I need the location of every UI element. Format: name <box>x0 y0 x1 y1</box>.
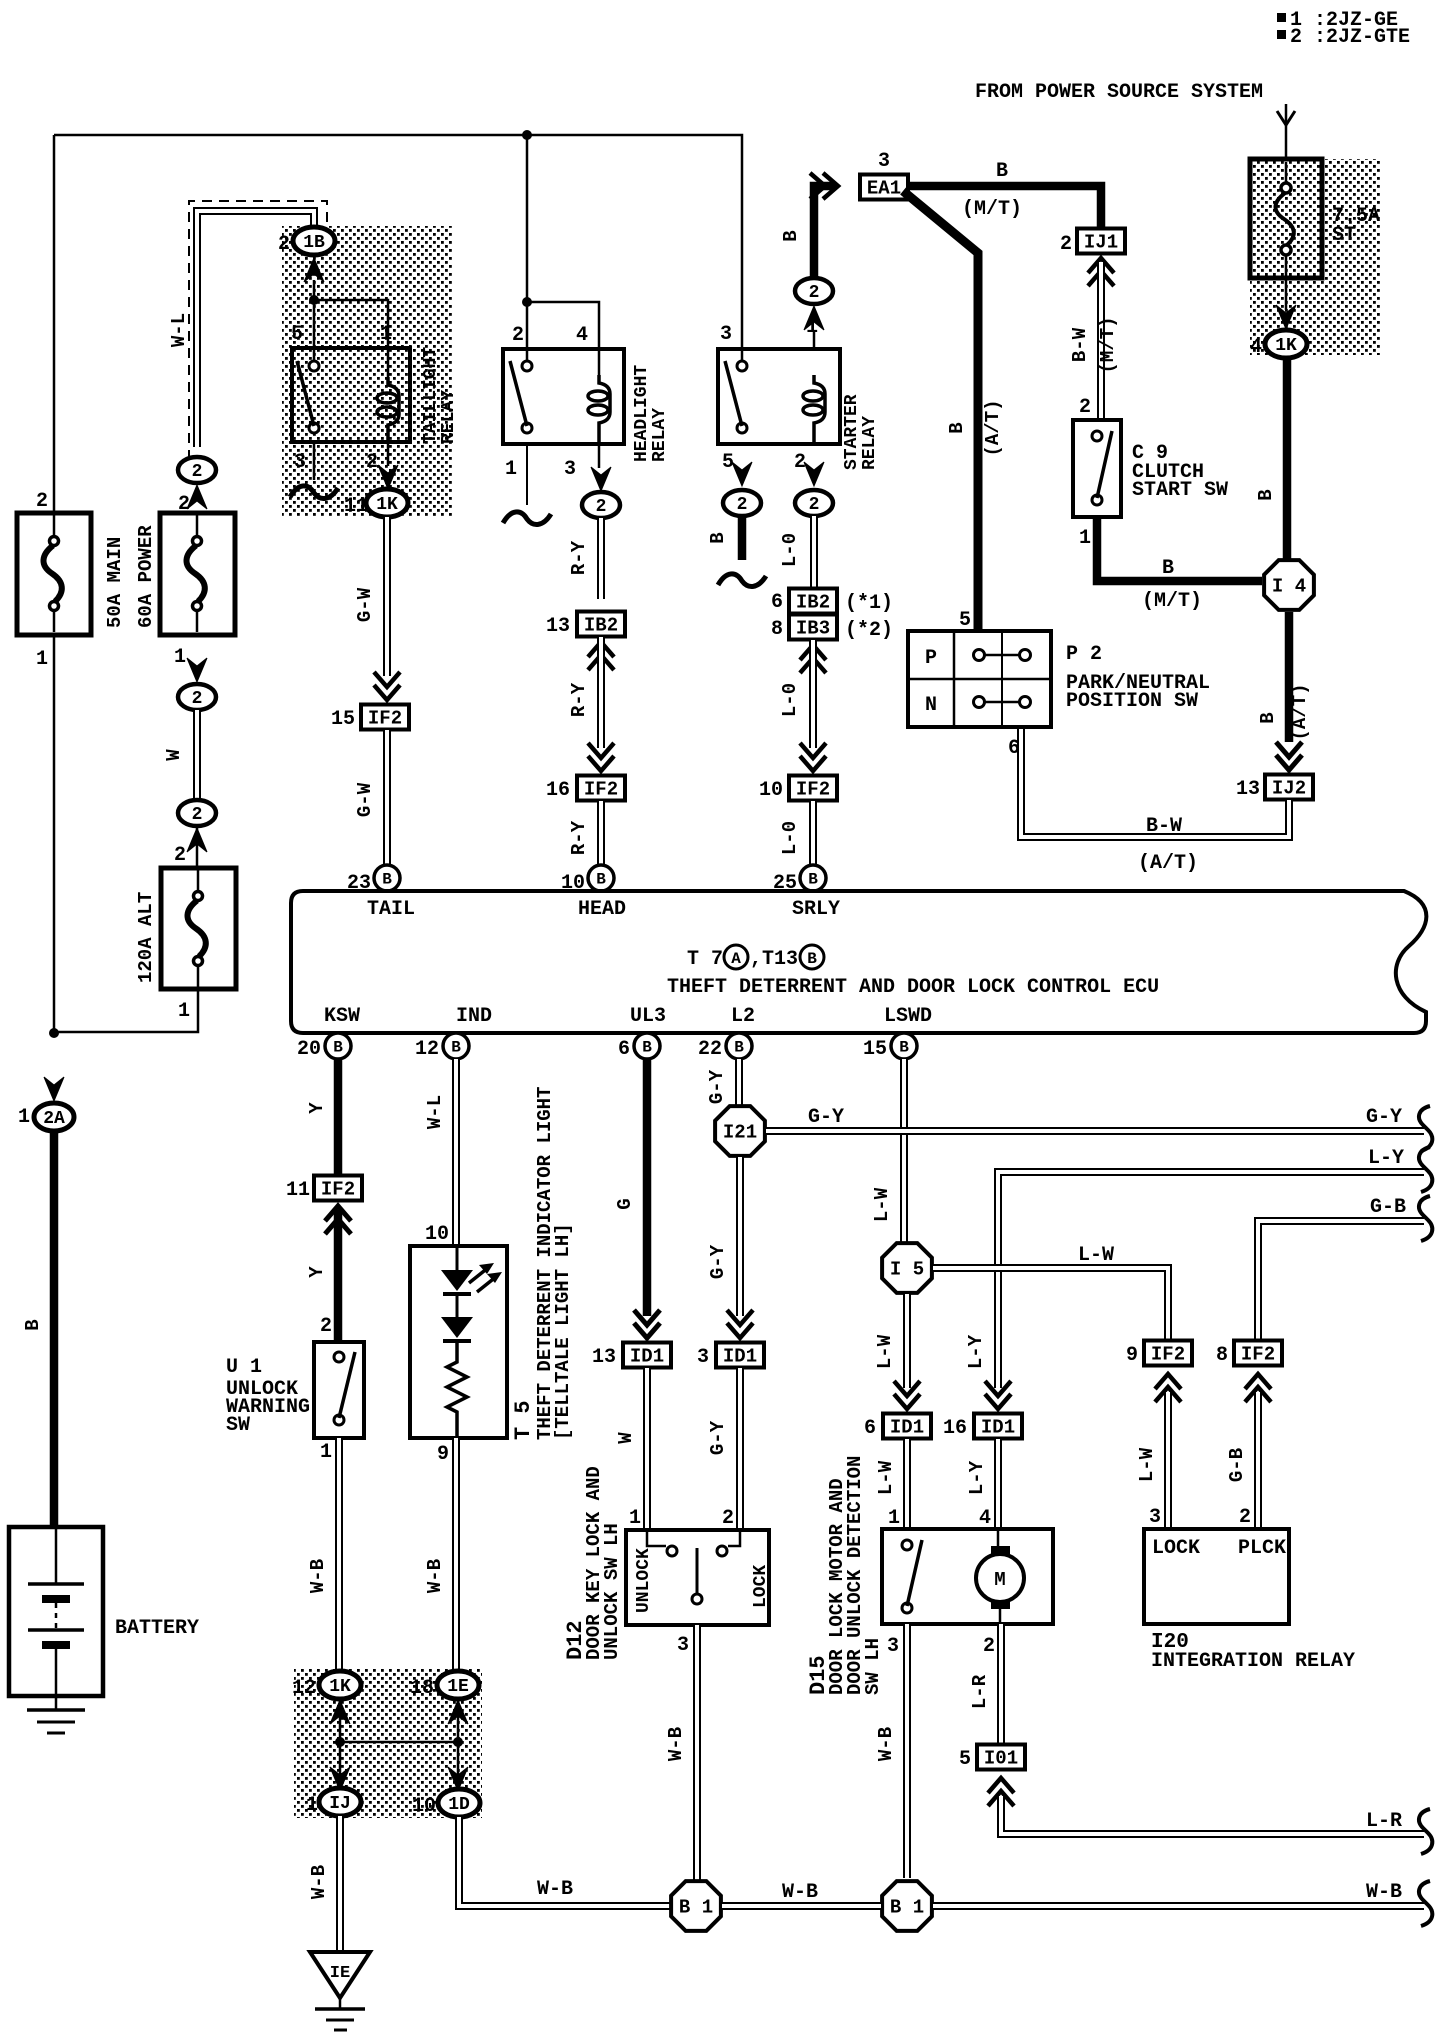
wire W-B B1 to B1 <box>722 1902 881 1910</box>
svg-text:8: 8 <box>771 618 783 641</box>
svg-text:2: 2 <box>192 805 203 825</box>
svg-text:IB2: IB2 <box>584 615 618 637</box>
connector 2 starter coil <box>795 278 833 304</box>
svg-text:L-W: L-W <box>1136 1447 1158 1482</box>
svg-text:R-Y: R-Y <box>568 682 590 717</box>
svg-text:2: 2 <box>1239 1506 1251 1529</box>
wire G-B from right <box>1258 1221 1424 1340</box>
relay I20 integration <box>1144 1529 1289 1624</box>
wire W-B B1 to right <box>933 1902 1424 1910</box>
svg-text:IF2: IF2 <box>796 779 830 801</box>
wire from power source <box>1277 111 1295 125</box>
wire B-W A/T IJ2 to P2 <box>1021 727 1289 837</box>
svg-text:1: 1 <box>36 648 48 671</box>
svg-text:60A POWER: 60A POWER <box>135 525 157 628</box>
svg-text:ID1: ID1 <box>630 1346 664 1368</box>
svg-text:W-L: W-L <box>168 313 190 347</box>
svg-text:2: 2 <box>1079 396 1091 419</box>
svg-text:Y: Y <box>306 1266 328 1278</box>
svg-text:ST: ST <box>1332 224 1356 247</box>
svg-text:U 1: U 1 <box>226 1356 262 1379</box>
svg-text:B: B <box>382 871 392 889</box>
svg-text:6: 6 <box>864 1417 876 1440</box>
connector 2 pair with W wire <box>187 658 207 682</box>
svg-text:2: 2 <box>809 283 820 303</box>
LED 2 in T5 <box>441 1317 473 1338</box>
wire L-Y down chevron <box>985 1394 1011 1409</box>
svg-text:ID1: ID1 <box>981 1417 1015 1439</box>
svg-text:LOCK: LOCK <box>751 1565 771 1608</box>
resistor in T5 <box>447 1341 467 1438</box>
wire 120A ALT to battery junction <box>54 989 198 1032</box>
svg-text:A: A <box>731 950 741 968</box>
wire L-W I5 down <box>903 1294 911 1388</box>
svg-text:50A MAIN: 50A MAIN <box>104 537 126 628</box>
svg-text:16: 16 <box>943 1417 967 1440</box>
connector 2A <box>44 1077 64 1101</box>
svg-text:B: B <box>780 230 802 241</box>
shading 7.5A ST fuse region <box>1250 159 1381 355</box>
svg-text:L-0: L-0 <box>779 821 801 855</box>
svg-text:W-B: W-B <box>307 1559 329 1593</box>
svg-text:8: 8 <box>1216 1344 1228 1367</box>
svg-text:HEAD: HEAD <box>578 898 626 921</box>
svg-text:T 5: T 5 <box>511 1400 536 1440</box>
svg-text:6: 6 <box>618 1038 630 1061</box>
svg-text:2: 2 <box>512 324 524 347</box>
svg-text:10: 10 <box>425 1223 449 1246</box>
svg-text:I01: I01 <box>984 1748 1018 1770</box>
svg-text:INTEGRATION RELAY: INTEGRATION RELAY <box>1151 1650 1355 1673</box>
fuse 60A POWER <box>160 513 235 635</box>
connector 2 head <box>582 492 620 518</box>
svg-text:RELAY: RELAY <box>439 390 459 444</box>
wire battery feed top horizontal <box>54 135 742 368</box>
wire fuse to 1K <box>1285 278 1288 310</box>
node B1 left <box>671 1881 721 1931</box>
fuse 7.5A ST <box>1250 159 1322 278</box>
svg-text:START SW: START SW <box>1132 479 1228 502</box>
wire R-Y HEAD <box>597 518 605 599</box>
wire taillight relay pin2 to 1K <box>387 442 390 466</box>
svg-text:1: 1 <box>888 1507 900 1530</box>
svg-text:3: 3 <box>878 150 890 173</box>
svg-text:ID1: ID1 <box>723 1346 757 1368</box>
shading 1K/1E junction block region <box>294 1668 482 1818</box>
wire G-Y L2 <box>735 1059 743 1106</box>
svg-text:B: B <box>1162 557 1174 580</box>
svg-text:N: N <box>925 694 937 717</box>
wire G-Y to D12 <box>736 1368 744 1530</box>
svg-text:22: 22 <box>698 1038 722 1061</box>
wire B from 1K fuse to I4 <box>1283 357 1292 560</box>
svg-text:IF2: IF2 <box>321 1179 355 1201</box>
wire starter coil pin1 to 2 oval <box>813 332 816 349</box>
svg-text:B: B <box>996 160 1008 183</box>
svg-text:1: 1 <box>629 1507 641 1530</box>
node battery junction <box>49 1028 59 1038</box>
svg-text:1: 1 <box>380 323 392 346</box>
svg-text:B: B <box>22 1319 44 1330</box>
svg-text:G-W: G-W <box>354 587 376 622</box>
svg-text:2: 2 <box>36 490 48 513</box>
lamp T5 theft deterrent indicator <box>410 1246 507 1438</box>
svg-text:5: 5 <box>959 1748 971 1771</box>
svg-text:KSW: KSW <box>324 1005 360 1028</box>
svg-text:3: 3 <box>677 1634 689 1657</box>
svg-text:TAILLIGHT: TAILLIGHT <box>421 347 441 444</box>
svg-text:W-B: W-B <box>875 1727 897 1761</box>
svg-text:LSWD: LSWD <box>884 1005 932 1028</box>
svg-text:W-B: W-B <box>308 1865 330 1899</box>
svg-text:12: 12 <box>415 1038 439 1061</box>
svg-text:1K: 1K <box>376 495 398 515</box>
svg-text:STARTER: STARTER <box>842 394 862 470</box>
svg-text:IF2: IF2 <box>1151 1344 1185 1366</box>
svg-text:B-W: B-W <box>1146 815 1182 838</box>
svg-text:EA1: EA1 <box>867 178 901 200</box>
svg-text:1K: 1K <box>1275 336 1297 356</box>
node B1 right <box>882 1881 932 1931</box>
svg-text:3: 3 <box>697 1346 709 1369</box>
ground IE triangle <box>310 1952 370 1998</box>
svg-text:(M/T): (M/T) <box>1097 316 1119 373</box>
svg-text:2A: 2A <box>43 1109 65 1129</box>
svg-text:M: M <box>994 1569 1005 1591</box>
wire headlight pin3 to 2 <box>598 444 601 468</box>
svg-text:L-0: L-0 <box>779 683 801 717</box>
svg-text:L-0: L-0 <box>779 533 801 567</box>
svg-text:L2: L2 <box>731 1005 755 1028</box>
svg-text:POSITION SW: POSITION SW <box>1066 690 1198 713</box>
svg-text:1B: 1B <box>303 233 325 253</box>
svg-text:5: 5 <box>291 323 303 346</box>
wire headlight pin1 open <box>526 444 528 505</box>
svg-text:T 7: T 7 <box>687 948 723 971</box>
wire B I4 to IJ2 <box>1285 612 1294 742</box>
svg-text:B: B <box>946 422 968 433</box>
svg-text:W: W <box>615 1432 637 1444</box>
svg-text:L-Y: L-Y <box>966 1460 988 1495</box>
wire W-B U1 to 1K <box>335 1438 343 1672</box>
svg-text:IJ: IJ <box>329 1794 351 1814</box>
relay headlight <box>522 297 532 307</box>
svg-text:B: B <box>1257 712 1279 723</box>
svg-text:IF2: IF2 <box>1241 1344 1275 1366</box>
svg-text:L-R: L-R <box>1366 1810 1402 1833</box>
svg-text:2: 2 <box>278 233 290 256</box>
svg-text:6: 6 <box>771 591 783 614</box>
wire headlight relay drop <box>526 135 529 368</box>
svg-text:IB2: IB2 <box>796 592 830 614</box>
svg-text:G-B: G-B <box>1226 1448 1248 1482</box>
svg-text:2: 2 <box>809 495 820 515</box>
connector 1K ST <box>1265 330 1307 358</box>
switch D12 door key lock and unlock <box>626 1530 769 1625</box>
svg-text:1K: 1K <box>329 1677 351 1697</box>
ground battery <box>55 1696 58 1710</box>
wire W-B IJ to IE ground <box>336 1816 344 1950</box>
svg-text:9: 9 <box>437 1443 449 1466</box>
wire L-O SRLY <box>810 516 818 588</box>
wire G-Y below I21 <box>736 1157 744 1316</box>
svg-text:B: B <box>451 1039 461 1057</box>
svg-text:10: 10 <box>759 779 783 802</box>
wire B clutch sw to I4 <box>1097 517 1262 581</box>
legend *2 2JZ-GTE <box>1277 30 1286 39</box>
svg-text:(A/T): (A/T) <box>1138 852 1198 875</box>
svg-text:W-B: W-B <box>537 1878 573 1901</box>
svg-text:B: B <box>808 871 818 889</box>
svg-text:1E: 1E <box>447 1677 469 1697</box>
switch and motor D15 door lock <box>882 1529 1053 1624</box>
svg-text:W-B: W-B <box>424 1559 446 1593</box>
svg-text:I 5: I 5 <box>890 1259 924 1281</box>
wire B EA1 to park/neutral sw <box>903 191 978 631</box>
svg-text:18: 18 <box>410 1677 434 1700</box>
svg-text:TAIL: TAIL <box>367 898 415 921</box>
svg-text:IND: IND <box>456 1005 492 1028</box>
svg-text:(*2): (*2) <box>845 619 893 642</box>
svg-text:2: 2 <box>737 495 748 515</box>
svg-text:15: 15 <box>863 1038 887 1061</box>
wire G-Y to right <box>766 1127 1424 1135</box>
svg-text:B 1: B 1 <box>679 1897 713 1919</box>
svg-text:5: 5 <box>959 609 971 632</box>
svg-text:W-B: W-B <box>782 1881 818 1904</box>
svg-text:1: 1 <box>174 646 186 669</box>
node I 4 <box>1264 560 1314 610</box>
svg-text:L-W: L-W <box>874 1334 896 1369</box>
svg-text:1: 1 <box>505 458 517 481</box>
svg-text:W-B: W-B <box>1366 1881 1402 1904</box>
svg-text:THEFT DETERRENT AND DOOR LOCK: THEFT DETERRENT AND DOOR LOCK CONTROL EC… <box>667 976 1159 999</box>
svg-text:IE: IE <box>330 1964 350 1983</box>
wire taillight relay pin3 open <box>313 442 316 480</box>
svg-text:2 :2JZ-GTE: 2 :2JZ-GTE <box>1290 26 1410 49</box>
wire G-W TAIL <box>383 517 391 676</box>
svg-text:L-Y: L-Y <box>1368 1147 1404 1170</box>
svg-text:G-Y: G-Y <box>707 1244 729 1279</box>
svg-text:RELAY: RELAY <box>650 408 670 462</box>
wire B battery <box>50 1131 59 1529</box>
svg-text:G: G <box>614 1198 636 1209</box>
svg-text:3: 3 <box>1149 1506 1161 1529</box>
svg-text:R-Y: R-Y <box>568 540 590 575</box>
wire L-W LSWD <box>900 1059 908 1243</box>
svg-text:3: 3 <box>564 458 576 481</box>
svg-text:B: B <box>734 1039 744 1057</box>
svg-text:3: 3 <box>294 451 306 474</box>
svg-text:4: 4 <box>576 324 588 347</box>
svg-text:IF2: IF2 <box>584 779 618 801</box>
svg-text:P 2: P 2 <box>1066 643 1102 666</box>
svg-text:UNLOCK SW LH: UNLOCK SW LH <box>601 1523 623 1660</box>
svg-text:P: P <box>925 647 937 670</box>
wire starter coil pin2 L-O <box>804 462 824 486</box>
wire B-W IJ1 to clutch start sw <box>1088 258 1114 273</box>
node I21 <box>715 1106 765 1156</box>
svg-text:IJ2: IJ2 <box>1272 778 1306 800</box>
svg-text:IF2: IF2 <box>368 708 402 730</box>
svg-text:ID1: ID1 <box>890 1417 924 1439</box>
svg-text:L-R: L-R <box>969 1674 991 1709</box>
svg-text:1: 1 <box>178 1000 190 1023</box>
wire 50A MAIN to battery junction <box>53 635 56 1034</box>
svg-text:B: B <box>899 1039 909 1057</box>
wire W-L shield dashes <box>189 201 327 460</box>
svg-text:L-Y: L-Y <box>965 1334 987 1369</box>
svg-text:1D: 1D <box>448 1795 470 1815</box>
node junction top wire to headlight relay <box>522 130 532 140</box>
svg-text:W: W <box>163 749 185 761</box>
svg-text:G-W: G-W <box>354 782 376 817</box>
svg-text:120A ALT: 120A ALT <box>135 892 157 983</box>
motor M in D15 <box>991 1546 1010 1555</box>
wire 1B to relay <box>313 280 316 368</box>
svg-text:B: B <box>642 1039 652 1057</box>
svg-text:12: 12 <box>292 1677 316 1700</box>
svg-text:RELAY: RELAY <box>860 416 880 470</box>
wire B EA1 to IJ1 <box>908 186 1101 228</box>
svg-text:(M/T): (M/T) <box>962 198 1022 221</box>
connector 2 above 60A POWER <box>178 457 216 483</box>
svg-text:PLCK: PLCK <box>1238 1537 1286 1560</box>
svg-text:2: 2 <box>320 1315 332 1338</box>
wire G UL3 <box>643 1059 652 1316</box>
svg-text:G-Y: G-Y <box>706 1069 728 1104</box>
node I 5 <box>882 1243 932 1293</box>
wire B to EA1 <box>814 186 836 279</box>
wire L-W I5 to IF2 9 <box>933 1268 1168 1340</box>
svg-text:L-W: L-W <box>871 1187 893 1222</box>
svg-text:10: 10 <box>412 1795 436 1818</box>
svg-text:1: 1 <box>18 1106 30 1129</box>
svg-text:B: B <box>596 871 606 889</box>
svg-text:13: 13 <box>1236 778 1260 801</box>
svg-text:(A/T): (A/T) <box>1289 683 1311 740</box>
svg-text:13: 13 <box>592 1346 616 1369</box>
svg-text:B: B <box>1255 489 1277 500</box>
svg-text:UNLOCK: UNLOCK <box>634 1548 654 1613</box>
svg-text:W-B: W-B <box>665 1727 687 1761</box>
svg-text:2: 2 <box>596 497 607 517</box>
svg-text:1: 1 <box>1079 527 1091 550</box>
svg-text:SW LH: SW LH <box>862 1638 884 1695</box>
svg-text:L-W: L-W <box>1078 1244 1114 1267</box>
svg-text:IJ1: IJ1 <box>1084 232 1118 254</box>
svg-text:6: 6 <box>1008 737 1020 760</box>
wire W-L IND <box>452 1059 460 1246</box>
svg-text:UL3: UL3 <box>630 1005 666 1028</box>
svg-text:2: 2 <box>192 689 203 709</box>
svg-text:LOCK: LOCK <box>1152 1537 1200 1560</box>
svg-text:,T13: ,T13 <box>750 948 798 971</box>
svg-text:2: 2 <box>366 451 378 474</box>
svg-text:SRLY: SRLY <box>792 898 840 921</box>
svg-text:[TELLTALE LIGHT LH]: [TELLTALE LIGHT LH] <box>552 1223 574 1440</box>
svg-text:Y: Y <box>306 1102 328 1114</box>
svg-text:G-Y: G-Y <box>808 1106 844 1129</box>
svg-text:B: B <box>707 532 729 543</box>
svg-text:SW: SW <box>226 1414 250 1437</box>
svg-text:9: 9 <box>1126 1344 1138 1367</box>
svg-text:1: 1 <box>306 1794 318 1817</box>
svg-text:B 1: B 1 <box>890 1897 924 1919</box>
svg-text:4: 4 <box>979 1507 991 1530</box>
legend *1 2JZ-GE <box>1277 13 1286 22</box>
connector 1K <box>366 489 408 517</box>
svg-text:3: 3 <box>887 1635 899 1658</box>
svg-text:B-W: B-W <box>1069 327 1091 362</box>
svg-text:R-Y: R-Y <box>568 820 590 855</box>
svg-text:IB3: IB3 <box>796 618 830 640</box>
svg-text:3: 3 <box>720 323 732 346</box>
svg-text:4: 4 <box>1250 336 1262 359</box>
svg-text:13: 13 <box>546 615 570 638</box>
switch U1 unlock warning <box>314 1342 364 1438</box>
wire Y KSW <box>334 1059 343 1174</box>
svg-text:BATTERY: BATTERY <box>115 1617 199 1640</box>
wire W-B T5 to 1E <box>452 1438 460 1672</box>
svg-text:2: 2 <box>1060 233 1072 256</box>
wire W to D12 <box>643 1368 651 1530</box>
svg-text:2: 2 <box>983 1635 995 1658</box>
svg-text:15: 15 <box>331 708 355 731</box>
svg-text:11: 11 <box>286 1179 310 1202</box>
svg-text:HEADLIGHT: HEADLIGHT <box>632 365 652 462</box>
wire W-B 1D to B1 <box>459 1817 670 1906</box>
node junction 1K-1E link <box>335 1737 345 1747</box>
LED 1 in T5 <box>441 1270 473 1291</box>
svg-text:I21: I21 <box>723 1122 757 1144</box>
svg-text:W-L: W-L <box>424 1095 446 1129</box>
shading taillight relay region <box>282 226 452 517</box>
svg-text:(*1): (*1) <box>845 592 893 615</box>
wire L-R to right <box>1001 1796 1424 1834</box>
svg-text:G-Y: G-Y <box>1366 1106 1402 1129</box>
wire 50A MAIN drop <box>53 135 56 515</box>
wire L-Y from right <box>998 1172 1424 1388</box>
svg-text:1: 1 <box>320 1441 332 1464</box>
battery <box>9 1527 103 1696</box>
wire W-L <box>197 211 314 447</box>
svg-text:2: 2 <box>722 1507 734 1530</box>
svg-text:(A/T): (A/T) <box>982 399 1004 456</box>
svg-text:20: 20 <box>297 1038 321 1061</box>
svg-text:2: 2 <box>192 462 203 482</box>
svg-text:B: B <box>333 1039 343 1057</box>
svg-text:L-W: L-W <box>875 1460 897 1495</box>
fuse 120A ALT <box>196 826 199 868</box>
svg-text:16: 16 <box>546 779 570 802</box>
svg-text:2: 2 <box>174 844 186 867</box>
svg-text:G-B: G-B <box>1370 1196 1406 1219</box>
svg-text:FROM POWER SOURCE SYSTEM: FROM POWER SOURCE SYSTEM <box>975 81 1263 104</box>
wire starter sw pin5 open B <box>732 462 752 486</box>
svg-text:G-Y: G-Y <box>707 1420 729 1455</box>
ECU theft deterrent and door lock control <box>291 891 1426 1033</box>
svg-text:B: B <box>807 950 817 968</box>
svg-text:I 4: I 4 <box>1272 576 1306 598</box>
svg-text:(M/T): (M/T) <box>1142 590 1202 613</box>
